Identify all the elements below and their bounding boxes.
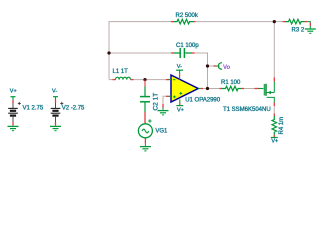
- svg-text:V+: V+: [177, 108, 184, 114]
- junction left C1 branch: [107, 51, 110, 54]
- svg-text:C1 100p: C1 100p: [176, 43, 199, 49]
- wire C1 branch: [109, 53, 208, 89]
- resistor R1: [220, 80, 245, 91]
- wire source to R4: [273, 106, 275, 114]
- ground V2: [50, 126, 61, 130]
- terminal V+ (R4): [271, 138, 278, 145]
- resistor R2: [171, 13, 199, 24]
- battery V1: [8, 89, 44, 127]
- svg-text:C2 1T: C2 1T: [152, 93, 159, 111]
- wire output to R1: [203, 88, 220, 90]
- svg-text:T1 SSM6K504NU: T1 SSM6K504NU: [223, 107, 271, 113]
- pin Vo: [214, 63, 231, 71]
- svg-text:V-: V-: [52, 89, 57, 95]
- wire +input to ground: [163, 96, 166, 104]
- svg-text:U1 OPA2990: U1 OPA2990: [185, 98, 221, 104]
- resistor R3: [283, 19, 311, 33]
- svg-text:V+: V+: [271, 139, 278, 145]
- capacitor C1: [171, 43, 199, 58]
- svg-text:R4 1m: R4 1m: [279, 117, 285, 135]
- svg-text:V1 2.75: V1 2.75: [23, 105, 44, 111]
- svg-text:Vo: Vo: [223, 65, 231, 71]
- resistor R4: [272, 114, 285, 138]
- svg-text:V+: V+: [10, 89, 17, 95]
- ground R3: [305, 29, 316, 33]
- ground VG1: [140, 147, 151, 151]
- svg-text:R2 500k: R2 500k: [176, 13, 199, 19]
- junction inverting node: [143, 78, 146, 81]
- inductor L1: [109, 69, 134, 80]
- junction Vo: [206, 64, 209, 67]
- svg-text:R1 100: R1 100: [221, 80, 241, 86]
- wire inverting input: [134, 79, 167, 81]
- source VG1: [138, 112, 168, 146]
- svg-text:L1 1T: L1 1T: [113, 69, 129, 75]
- svg-text:V-: V-: [177, 64, 182, 70]
- pin V+ (op-amp): [176, 99, 184, 113]
- wire top loop: [109, 22, 283, 80]
- capacitor C2: [140, 80, 159, 112]
- junction top right: [273, 20, 276, 23]
- svg-text:V2 -2.75: V2 -2.75: [62, 105, 85, 111]
- battery V2: [51, 89, 85, 127]
- transistor T1: [223, 78, 274, 113]
- wire drain vertical: [273, 22, 275, 78]
- wire Vo stub: [208, 65, 214, 67]
- svg-text:R3 2: R3 2: [292, 27, 305, 33]
- svg-text:VG1: VG1: [155, 129, 168, 135]
- junction output: [206, 87, 209, 90]
- op-amp U1: [166, 75, 221, 104]
- pin V- (op-amp): [176, 64, 183, 79]
- wire R1 to gate: [244, 88, 255, 90]
- ground (+input): [162, 104, 164, 110]
- ground V1: [8, 126, 19, 130]
